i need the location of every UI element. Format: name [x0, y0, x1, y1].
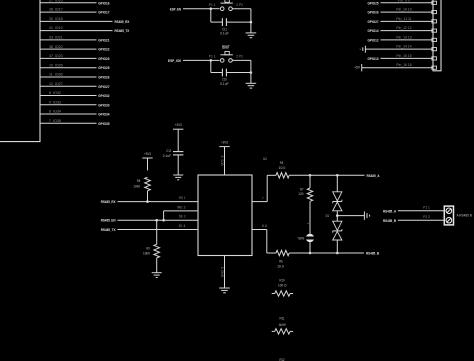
wire U3 pin7 to A line [252, 175, 276, 201]
wire net RS485_EN [101, 215, 198, 223]
wire header Pin_15 15 net GPIO13 [368, 54, 437, 61]
wire pin 28 IO17 net GPIO17 [40, 8, 110, 15]
svg-text:DI 4: DI 4 [179, 224, 186, 228]
wire U3 pin6 to B line [252, 224, 276, 253]
svg-text:RS485_TX: RS485_TX [101, 227, 116, 232]
node junction ESP_EN/SW1/C11 [210, 7, 220, 10]
svg-text:R5: R5 [280, 161, 283, 165]
jumper JP1 TERM solder jumper [297, 234, 314, 242]
svg-text:31 IO19: 31 IO19 [49, 26, 63, 30]
svg-text:RS485_EN: RS485_EN [101, 218, 116, 223]
wire header Pin_9 9 net GPIO25 [368, 0, 437, 5]
wire header Pin_10 10 net GPIO26 [368, 8, 437, 15]
wire pin 33 IO21 net GPIO21 [40, 35, 110, 42]
node junction R8/RS485_RX [146, 200, 149, 203]
svg-text:TERM: TERM [297, 236, 304, 240]
wire SW2 pin2 to corner [232, 60, 251, 72]
wire net RS485_B to J2 pin2 [383, 215, 444, 223]
svg-text:0.1uF: 0.1uF [220, 82, 229, 86]
svg-text:GPIO34: GPIO34 [98, 112, 110, 117]
IC U1 ESP32 module body [0, 0, 40, 142]
svg-text:120: 120 [298, 192, 303, 196]
wire D1 mid junction [336, 211, 338, 221]
power +3V3 for C12 [173, 122, 183, 152]
capacitor C11 0.1uF [220, 18, 251, 36]
svg-text:ESP_EN: ESP_EN [170, 6, 181, 11]
svg-text:Pin_16 16: Pin_16 16 [396, 63, 411, 67]
svg-text:R6: R6 [279, 260, 282, 264]
svg-text:0.1uF: 0.1uF [220, 32, 229, 36]
resistor R12 spare (label only, clipped) [279, 358, 284, 361]
screw terminal J2 pin 2 [446, 217, 452, 223]
svg-text:RS485_B: RS485_B [366, 251, 379, 256]
node junction C11/ground [250, 21, 253, 24]
svg-text:BOOT: BOOT [222, 45, 230, 50]
svg-text:27 IO16: 27 IO16 [49, 0, 63, 2]
svg-text:10.0: 10.0 [279, 166, 286, 170]
svg-text:Pin_15 15: Pin_15 15 [396, 54, 411, 58]
svg-text:P1 1: P1 1 [423, 206, 430, 210]
svg-text:GPIO21: GPIO21 [98, 37, 110, 42]
ground GND for D1 [364, 211, 369, 219]
svg-text:4k99: 4k99 [279, 323, 286, 327]
capacitor C10 0.1uF [220, 69, 251, 87]
resistor R8 10k0 pullup [133, 177, 150, 201]
resistor R5 10.0 [276, 161, 289, 178]
power +3V3 for R8 [142, 151, 152, 171]
svg-text:RS485_A: RS485_A [383, 208, 396, 213]
svg-text:9 IO33: 9 IO33 [49, 100, 61, 104]
svg-text:+3V3: +3V3 [144, 151, 151, 156]
svg-text:10.0: 10.0 [277, 265, 284, 269]
svg-text:7: 7 [262, 196, 264, 200]
wire SW1 pin2 to corner [232, 9, 251, 22]
svg-text:VCC 8: VCC 8 [220, 155, 224, 165]
svg-text:P2 2: P2 2 [423, 215, 430, 219]
svg-text:GPIO27: GPIO27 [98, 84, 110, 89]
svg-text:/RE 2: /RE 2 [177, 205, 186, 209]
svg-text:Pin_13 13: Pin_13 13 [396, 35, 411, 39]
wire pin 27 IO16 net GPIO16 [40, 0, 110, 5]
node junction A/D1 [336, 174, 339, 177]
svg-text:GPIO26: GPIO26 [98, 75, 110, 80]
wire C11 left branch [211, 9, 223, 22]
wire pin 11 IO26 net GPIO26 [40, 73, 110, 80]
svg-text:GND 5: GND 5 [220, 267, 224, 277]
ground GND for SW1/C11 [246, 22, 257, 38]
capacitor C12 0.1uF [163, 149, 184, 175]
switch SW1 EN pushbutton [209, 0, 243, 11]
power +5V at header pin 16 [354, 63, 436, 71]
pin label GND 5 (U3 pin 5) [220, 267, 224, 277]
svg-text:10k0: 10k0 [143, 252, 150, 256]
svg-text:10k0: 10k0 [133, 184, 140, 188]
svg-text:Pin_9 9: Pin_9 9 [398, 0, 410, 2]
wire pin 9 IO33 net GPIO33 [40, 100, 110, 107]
svg-text:D1: D1 [326, 214, 329, 218]
svg-text:GPIO33: GPIO33 [98, 102, 110, 107]
svg-text:30 IO18: 30 IO18 [49, 17, 63, 21]
svg-text:R7: R7 [300, 187, 303, 191]
switch SW2 BOOT pushbutton [209, 45, 243, 63]
svg-text:A RS485 B: A RS485 B [457, 213, 472, 217]
svg-text:0.1uF: 0.1uF [163, 154, 172, 158]
svg-text:R11: R11 [279, 317, 284, 321]
wire TERM to B line [309, 242, 311, 253]
wire pin 31 IO19 net RS485_TX [40, 26, 130, 33]
svg-text:7 IO35: 7 IO35 [49, 119, 61, 123]
wire net RS485_A (A line label) [367, 173, 380, 178]
svg-text:GPIO23: GPIO23 [98, 56, 110, 61]
svg-text:DE 3: DE 3 [179, 215, 186, 219]
pin label jumper pin 1 [306, 222, 310, 224]
svg-text:10 IO25: 10 IO25 [49, 63, 63, 67]
svg-text:12 IO27: 12 IO27 [49, 82, 63, 86]
resistor R7 120 termination [298, 175, 312, 233]
ground GND under R9 [152, 273, 162, 278]
ground GND under C12 [173, 175, 183, 180]
wire header Pin_13 13 net GPIO12 [368, 35, 437, 42]
svg-text:11 IO26: 11 IO26 [49, 73, 63, 77]
svg-text:GPIO17: GPIO17 [98, 10, 110, 15]
svg-text:GPIO12: GPIO12 [368, 37, 380, 42]
wire pin 12 IO27 net GPIO27 [40, 82, 110, 89]
svg-text:GPIO25: GPIO25 [98, 65, 110, 70]
svg-text:+3V3: +3V3 [221, 139, 228, 144]
svg-text:C11: C11 [222, 27, 227, 31]
IC J1 header body [433, 0, 441, 71]
wire net RS485_B (B line label) [366, 251, 379, 256]
svg-text:33 IO21: 33 IO21 [49, 35, 63, 39]
resistor R9 10k0 pulldown [143, 220, 160, 273]
svg-text:P1 1: P1 1 [209, 55, 216, 59]
wire RE branch to U3 pin 2 [164, 205, 198, 220]
svg-text:ESP_IO0: ESP_IO0 [168, 58, 182, 63]
wire net RS485_A to J2 pin1 [383, 206, 444, 214]
wire U3 pin5 to ground [224, 256, 226, 289]
svg-text:GPIO35: GPIO35 [98, 121, 110, 126]
wire net ESP_EN [170, 6, 211, 11]
wire pin 37 IO23 net GPIO23 [40, 54, 110, 61]
svg-text:+3V3: +3V3 [175, 122, 182, 127]
wire pin 36 IO22 net GPIO22 [40, 45, 110, 52]
wire pin 8 IO32 net GPIO32 [40, 91, 110, 98]
ground GND at header pin 14 [360, 45, 436, 53]
wire A line [289, 174, 364, 176]
svg-text:R10: R10 [279, 279, 284, 283]
svg-text:GPIO27: GPIO27 [368, 19, 380, 24]
svg-text:+5V: +5V [354, 64, 360, 69]
svg-text:GPIO26: GPIO26 [368, 10, 380, 15]
svg-text:Pin_10 10: Pin_10 10 [396, 8, 411, 12]
wire A line to D1 [336, 175, 338, 192]
svg-text:RS485_A: RS485_A [367, 173, 380, 178]
svg-text:R9: R9 [146, 246, 149, 250]
node junction C10/ground [250, 71, 253, 74]
node junction ESP_IO0/SW2/C10 [210, 59, 220, 62]
svg-text:GPIO22: GPIO22 [98, 47, 110, 52]
node junction A/R7 [309, 174, 312, 177]
svg-text:Pin_14 14: Pin_14 14 [396, 45, 411, 49]
svg-text:GPIO32: GPIO32 [98, 93, 110, 98]
resistor R10 100R spare [272, 279, 293, 297]
svg-text:8 IO32: 8 IO32 [49, 91, 61, 95]
node junction RS485_EN/RE branch [162, 219, 165, 222]
svg-text:C10: C10 [222, 78, 227, 82]
svg-text:37 IO23: 37 IO23 [49, 54, 63, 58]
svg-text:R8: R8 [137, 179, 140, 183]
svg-text:36 IO22: 36 IO22 [49, 45, 63, 49]
svg-text:RS485_TX: RS485_TX [115, 28, 130, 33]
diode D1 bottom pair [333, 221, 342, 253]
svg-text:C12: C12 [166, 149, 171, 153]
svg-text:RS485_RX: RS485_RX [115, 19, 130, 24]
svg-text:2 P2: 2 P2 [236, 3, 243, 7]
pin label VCC 8 (U3 pin 8) [220, 155, 224, 165]
svg-text:GPIO16: GPIO16 [98, 0, 110, 5]
op-amp U3 RS485 transceiver body [198, 157, 267, 255]
wire net ESP_IO0 [168, 58, 211, 63]
svg-text:6 A: 6 A [262, 224, 268, 228]
ground GND for SW2/C10 [246, 73, 257, 89]
svg-text:P1 1: P1 1 [209, 3, 216, 7]
wire pin 6 IO34 net GPIO34 [40, 110, 110, 117]
node junction D1 mid/ground [336, 214, 339, 217]
svg-text:Pin_11 11: Pin_11 11 [396, 17, 411, 21]
wire net RS485_TX to U3 DI pin 4 [101, 224, 198, 232]
screw terminal J2 pin 1 [446, 208, 452, 214]
node junction B/D1 [336, 252, 339, 255]
svg-text:6 IO34: 6 IO34 [49, 110, 61, 114]
resistor R6 10.0 [276, 250, 289, 268]
svg-text:GPIO13: GPIO13 [368, 56, 380, 61]
svg-text:GPIO14: GPIO14 [368, 28, 380, 33]
svg-text:U3: U3 [263, 157, 266, 161]
wire pin 7 IO35 net GPIO35 [40, 119, 110, 126]
svg-text:28 IO17: 28 IO17 [49, 8, 63, 12]
power +3V3 for U3 VCC [219, 139, 229, 175]
wire C10 left branch [211, 60, 223, 72]
svg-text:Pin_12 12: Pin_12 12 [396, 26, 411, 30]
svg-text:GPIO25: GPIO25 [368, 0, 380, 5]
wire pin 30 IO18 net RS485_RX [40, 17, 130, 24]
wire D1 mid to ground [337, 215, 364, 217]
svg-text:100 Ω: 100 Ω [278, 283, 287, 287]
ground GND under U3 [219, 288, 230, 293]
wire B line [289, 252, 364, 254]
wire header Pin_11 11 net GPIO27 [368, 17, 437, 24]
diode D1 TVS array label [326, 214, 329, 218]
resistor R11 4k99 spare [272, 317, 293, 335]
wire header Pin_12 12 net GPIO14 [368, 26, 437, 33]
node junction B/TERM [309, 252, 312, 255]
svg-text:RS485_RX: RS485_RX [101, 199, 116, 204]
svg-text:RO 1: RO 1 [179, 196, 186, 200]
IC J2 screw terminal body [444, 206, 472, 225]
diode D1 top pair [333, 192, 342, 211]
node junction RS485_EN/R9 [155, 219, 158, 222]
svg-text:RS485_B: RS485_B [383, 218, 396, 223]
wire net RS485_RX to U3 RO pin 1 [101, 196, 198, 204]
wire pin 10 IO25 net GPIO25 [40, 63, 110, 70]
svg-text:2 P2: 2 P2 [236, 55, 243, 59]
